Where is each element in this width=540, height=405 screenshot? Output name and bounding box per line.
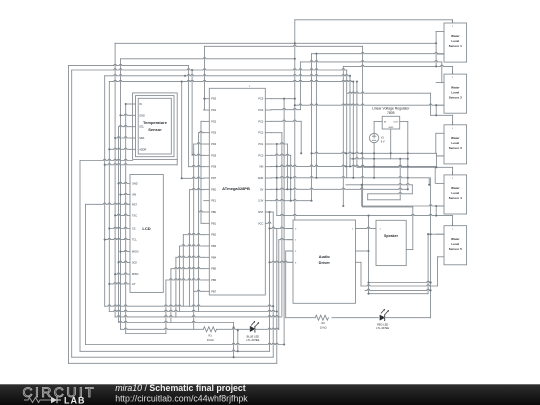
water level sensor 5 lower-left pin stub [438, 256, 445, 258]
water level sensor 4 [444, 175, 467, 214]
wire V1 minus to ground bus [373, 143, 375, 178]
U1 right pin PC5 [265, 98, 271, 100]
temperature sensor pin SCL [130, 126, 136, 128]
wire U1 PC4 [271, 108, 301, 109]
svg-text:PD0: PD0 [211, 98, 216, 101]
svg-text:V1: V1 [381, 135, 385, 139]
resistor R1 10k [203, 327, 216, 332]
wire U1 PB4 [176, 256, 204, 257]
svg-text:GND: GND [132, 183, 138, 186]
svg-text:GND: GND [139, 114, 145, 117]
wire bundle r4 [352, 82, 354, 178]
svg-text:Sensor 2: Sensor 2 [449, 95, 462, 99]
LCD module [130, 175, 163, 293]
audio driver left pin 0 [287, 227, 293, 229]
audio driver left pin 3 [287, 261, 293, 263]
audio driver right pin stubs [356, 250, 362, 252]
U1 left pin PB6 [204, 279, 210, 281]
wire U1 PD1 [203, 109, 206, 111]
U1 left pin PB0 [204, 211, 210, 213]
svg-text:PC0: PC0 [258, 154, 263, 157]
wire U1 PC5 [271, 98, 295, 100]
svg-text:TSC: TSC [132, 214, 137, 217]
wire WLS3 lower-left jog [435, 153, 437, 156]
wire regulator OUT to 5V bus [400, 121, 408, 123]
svg-text:PB6: PB6 [211, 279, 216, 282]
U1 left pin PB2 [204, 234, 210, 236]
svg-text:7805: 7805 [387, 111, 395, 115]
wire bus va [104, 76, 106, 306]
svg-text:PD2: PD2 [211, 120, 216, 123]
svg-text:LTL-307EE: LTL-307EE [376, 326, 389, 330]
U1 right pin PC3 [265, 120, 271, 122]
wire U1 5V bus [271, 188, 408, 189]
wire temp SDA [115, 137, 130, 138]
wire LCD pin [115, 273, 124, 274]
U1 left pin PB1 [204, 222, 210, 224]
wire vertical x294.8 [294, 20, 296, 220]
svg-text:TCL: TCL [132, 239, 137, 242]
svg-text:GND: GND [258, 177, 264, 180]
wire audio right pin2 drop [360, 262, 362, 286]
wire speaker loop [362, 46, 364, 207]
U1 left pin PD6 [204, 166, 210, 168]
svg-text:SDA: SDA [139, 137, 144, 140]
wire WLS5 lower-left drop [437, 257, 439, 286]
wire bus vc [114, 43, 116, 317]
svg-text:PD7: PD7 [211, 177, 216, 180]
U1 left pin PB4 [204, 256, 210, 258]
wire WLS5 top feed [277, 214, 453, 215]
water level sensor 3 lower-left pin stub [438, 155, 445, 157]
svg-text:3.3V: 3.3V [258, 200, 263, 203]
wire bus y46.3 to speaker loop [205, 45, 363, 46]
wire R2 to RED LED [332, 317, 379, 319]
wire drop a [233, 323, 235, 358]
water level sensor 4 lower-left pin stub [438, 205, 445, 207]
wire mesh y193.8 [368, 192, 413, 193]
wire U1 PD2 [201, 120, 204, 122]
wire U1 PC3 [271, 120, 301, 121]
U1 left pin PB5 [204, 268, 210, 270]
svg-text:PB3: PB3 [211, 245, 216, 248]
U1 left pin PD0 [204, 98, 210, 100]
wire U1 PC0 [271, 154, 291, 155]
wire WLS5 side link [427, 234, 429, 294]
wire U1 PC1 [271, 143, 288, 144]
junction dots [294, 42, 296, 44]
LCD pin RST [124, 203, 130, 204]
wire WLS2 top feed y66.4 [343, 65, 452, 66]
svg-text:MOSI: MOSI [132, 251, 139, 254]
wire bus y61.9 to WLS2 upper-left [300, 61, 441, 62]
svg-text:PE1: PE1 [211, 200, 216, 203]
svg-text:CS: CS [132, 228, 136, 231]
svg-text:LAB: LAB [64, 396, 86, 405]
svg-text:LTL-307EE: LTL-307EE [246, 338, 259, 342]
resistor R2 10k [315, 315, 328, 320]
svg-text:ADDR: ADDR [139, 148, 146, 151]
U1 right pin RST [265, 211, 271, 213]
U1 left pin PD3 [204, 132, 210, 134]
wire U1 PD0 [203, 98, 206, 100]
U1 left pin PB7 [204, 290, 210, 292]
svg-text:PC4: PC4 [258, 109, 263, 112]
U1 right pin 3.3V [265, 200, 271, 202]
svg-text:OUT: OUT [393, 122, 398, 124]
wire left loop 3 [79, 161, 81, 352]
temperature sensor pin SDA [130, 137, 136, 139]
svg-text:10 kΩ: 10 kΩ [320, 326, 327, 330]
temperature sensor pin GND [130, 114, 136, 116]
speaker SP1 [376, 220, 406, 265]
U1 left pin PD4 [204, 143, 210, 145]
svg-text:PB0: PB0 [211, 211, 216, 214]
speaker right pin stub [406, 249, 413, 251]
wire bus y58.8 WLS2 lower-left [121, 57, 295, 58]
wire WLS1 top feed [295, 19, 453, 21]
water level sensor 1 lower-left pin stub [438, 53, 445, 55]
wire U1 PE0 [182, 177, 204, 178]
svg-text:5V: 5V [260, 188, 263, 191]
temperature sensor pin IN [130, 103, 136, 105]
water level sensor 2 upper-left pin stub [436, 82, 444, 84]
svg-text:RST: RST [132, 203, 137, 206]
wire audio pin0 link [270, 227, 294, 228]
svg-text:VIN: VIN [259, 166, 263, 169]
LED D2 red [380, 315, 385, 320]
U1 right pin GND [265, 177, 271, 179]
wire U1 PB1 [201, 222, 204, 224]
wire U1 PC2 [271, 132, 282, 134]
wire U1 3.3V bus [271, 199, 312, 200]
svg-text:Audio: Audio [319, 254, 331, 259]
wire mesh y184.8 [346, 183, 412, 184]
svg-text:Level: Level [451, 39, 459, 43]
wire LED to riser [255, 328, 279, 329]
wire WLS3 top feed jog [347, 92, 431, 93]
wire bundle r3 [349, 76, 351, 167]
U1 right pin PC1 [265, 143, 271, 145]
audio driver left pin 1 [287, 239, 293, 241]
wire bundle r2 [346, 70, 348, 178]
svg-text:Speaker: Speaker [384, 234, 399, 238]
wire temp GND [121, 114, 130, 115]
water level sensor 4 top pin stub [452, 172, 454, 175]
svg-text:PE0: PE0 [211, 188, 216, 191]
U1 left pin PD1 [204, 109, 210, 111]
svg-text:Level: Level [451, 90, 459, 94]
svg-text:PC3: PC3 [258, 120, 263, 123]
svg-text:MISO: MISO [132, 273, 138, 276]
water level sensor 1 upper-left pin stub [436, 31, 444, 33]
wire U1 GND [271, 176, 429, 177]
U1 left pin PE1 [204, 200, 210, 202]
svg-text:RST: RST [258, 211, 263, 214]
svg-text:PB1: PB1 [211, 222, 216, 225]
LCD pin MOSI [124, 250, 130, 251]
svg-text:PC5: PC5 [258, 98, 263, 101]
audio driver left pin 2 [287, 250, 293, 252]
U1 right pin 5V [265, 188, 271, 190]
wire temp IN [126, 103, 130, 105]
svg-text:Temperature: Temperature [143, 120, 168, 125]
LCD pin VIN [124, 193, 130, 194]
svg-text:PB4: PB4 [211, 256, 216, 259]
logo diode [51, 397, 57, 403]
wire LCD pin [105, 238, 125, 239]
audio driver U3 [293, 220, 356, 303]
svg-text:Sensor 5: Sensor 5 [449, 247, 462, 251]
wire audio right pin1 drop [368, 216, 370, 294]
wire U1 PD6 [189, 165, 204, 166]
svg-text:Sensor 1: Sensor 1 [449, 44, 462, 48]
U1 left pin PD7 [204, 177, 210, 179]
microcontroller U1 ATmega328PB [209, 88, 265, 295]
water level sensor 1 top pin stub [452, 20, 454, 23]
U1 right pin PC2 [265, 132, 271, 134]
water level sensor 1 [444, 23, 467, 62]
LCD pin GND [124, 182, 130, 183]
wire bus vf [125, 104, 127, 334]
water level sensor 2 [444, 74, 467, 113]
LCD pin MISO [124, 273, 130, 274]
water level sensor 5 [444, 226, 467, 265]
svg-text:PB5: PB5 [211, 268, 216, 271]
wire WLS4 top feed [357, 166, 453, 167]
wire R1 to LED [217, 328, 250, 329]
wire U1 PB3 [180, 245, 204, 246]
LCD pin SCK [124, 261, 130, 262]
wire LCD pin [121, 251, 125, 253]
wire WLS3 upper-left drop [435, 133, 437, 153]
svg-text:Water: Water [451, 85, 460, 89]
svg-text:Level: Level [451, 242, 459, 246]
wire LCD pin [121, 194, 125, 196]
temperature sensor U2 [136, 96, 175, 157]
svg-text:Level: Level [451, 191, 459, 195]
wire loop around temperature sensor [133, 93, 178, 159]
svg-text:Water: Water [451, 186, 460, 190]
wire bus y43.3 to WLS1 upper-left [115, 42, 436, 44]
svg-text:9 V: 9 V [381, 140, 385, 144]
wire drop b [237, 329, 239, 351]
wire U1 PD5 [192, 154, 204, 155]
wire bus vb [108, 82, 110, 312]
U1 left pin PD2 [204, 120, 210, 122]
svg-text:LCD: LCD [142, 226, 150, 231]
U1 left pin PD5 [204, 154, 210, 156]
water level sensor 3 upper-left pin stub [436, 132, 444, 134]
svg-text:BLUE LED: BLUE LED [247, 334, 260, 338]
svg-text:IN: IN [139, 103, 142, 106]
wire U1 PB0 [199, 211, 204, 212]
svg-text:Sensor: Sensor [148, 127, 162, 132]
U1 right pin PC4 [265, 109, 271, 111]
wire bundle r1 [342, 66, 344, 206]
wire RED LED riser [385, 317, 431, 319]
logo resistor squiggle [24, 398, 51, 403]
svg-text:10 kΩ: 10 kΩ [207, 338, 214, 342]
svg-text:VIN: VIN [132, 194, 136, 197]
U1 left pin PB3 [204, 245, 210, 247]
wire bus ve [120, 59, 122, 330]
svg-text:VCC: VCC [258, 222, 263, 225]
wire temp ADDR [109, 148, 130, 149]
svg-text:RED LED: RED LED [377, 323, 388, 327]
svg-text:LIT: LIT [132, 283, 136, 286]
CircuitLab logo [23, 384, 97, 405]
LED D1 blue [250, 326, 255, 331]
wire bottom right y282.5 [369, 281, 431, 282]
svg-text:SCL: SCL [139, 126, 144, 129]
wire LCD pin [109, 227, 124, 228]
wire U1 PB7 [194, 290, 204, 291]
LCD pin TSC [124, 214, 130, 215]
LCD pin CS [124, 227, 130, 228]
svg-text:Water: Water [451, 34, 460, 38]
svg-text:Linear Voltage Regulator: Linear Voltage Regulator [372, 107, 410, 111]
wire U1 PB5 [171, 267, 204, 268]
wire temp wrap bottom link [105, 163, 178, 164]
wire gnd bus y153.3 [312, 152, 437, 153]
svg-text:mira10 / Schematic final proje: mira10 / Schematic final project [115, 383, 246, 393]
water level sensor 5 upper-left pin stub [436, 233, 444, 235]
temperature sensor pin ADDR [130, 148, 136, 150]
LCD pin LIT [124, 283, 130, 284]
U1 right pin PC0 [265, 154, 271, 156]
wire audio to speaker [356, 227, 377, 228]
wire U1 PE1 [189, 188, 203, 189]
water level sensor 3 [444, 125, 467, 164]
svg-text:Level: Level [451, 141, 459, 145]
water level sensor 2 lower-left pin stub [438, 104, 445, 106]
svg-text:PC2: PC2 [258, 132, 263, 135]
wire LCD pin [115, 214, 124, 215]
svg-text:SCK: SCK [132, 261, 137, 264]
svg-text:PB7: PB7 [211, 290, 216, 293]
svg-text:PB2: PB2 [211, 234, 216, 237]
svg-text:PD1: PD1 [211, 109, 216, 112]
wire audio pin3 link [270, 261, 294, 262]
wire U1 PD3 [199, 131, 204, 132]
water level sensor 4 upper-left pin stub [436, 182, 444, 184]
wire LCD pin [119, 182, 125, 183]
U1 right pin VCC [265, 222, 271, 223]
wire WLS5 upper-left drop [430, 178, 432, 318]
wire left loop 4 [85, 204, 87, 344]
wire U1 PB2 [183, 233, 203, 234]
svg-text:http://circuitlab.com/c44whf8r: http://circuitlab.com/c44whf8rjfhpk [115, 394, 248, 404]
wire WLS4 upper-left drop [434, 166, 436, 183]
wire regulator IN to V1 [374, 121, 382, 123]
footer title [115, 383, 248, 403]
wire left loop 2 [72, 69, 347, 70]
svg-text:Driver: Driver [319, 260, 331, 265]
wire WLS4 lower-left bus y206 [362, 205, 444, 206]
svg-text:PD5: PD5 [211, 154, 216, 157]
svg-text:Sensor 4: Sensor 4 [449, 196, 462, 200]
wire LCD pin [109, 283, 124, 284]
svg-text:R1: R1 [209, 334, 213, 338]
U1 right pin VIN [265, 166, 271, 168]
svg-text:PD3: PD3 [211, 132, 216, 135]
wire gnd bus y158.8 [350, 158, 408, 159]
wire WLS1 lower-left bus y53.7 [312, 52, 445, 53]
wire LCD pin [119, 261, 125, 262]
svg-text:PD4: PD4 [211, 143, 216, 146]
svg-text:ATmega328PB: ATmega328PB [222, 186, 250, 191]
water level sensor 5 top pin stub [452, 223, 454, 226]
water level sensor 2 top pin stub [452, 71, 454, 74]
water level sensor 3 top pin stub [452, 122, 454, 125]
voltage source V1 9V [369, 133, 378, 142]
svg-text:PC1: PC1 [258, 143, 263, 146]
wire regulator GND down [390, 129, 392, 159]
regulator box [382, 116, 400, 129]
svg-text:Water: Water [451, 237, 460, 241]
U1 left pin PE0 [204, 188, 210, 190]
wire bus vd [118, 127, 120, 323]
LCD pin TCL [124, 238, 130, 239]
wire left loop 1 [69, 64, 189, 65]
svg-text:Water: Water [451, 136, 460, 140]
wire U1 VIN [271, 165, 435, 166]
wire to R2 [286, 317, 316, 319]
svg-text:PD6: PD6 [211, 166, 216, 169]
svg-text:Sensor 3: Sensor 3 [449, 146, 462, 150]
wire U1 PD4 [194, 143, 204, 144]
svg-text:R2: R2 [322, 321, 326, 325]
wire temp SCL [119, 125, 130, 126]
wire U1 PB6 [166, 279, 204, 280]
wire mesh y199.8 [368, 199, 401, 201]
